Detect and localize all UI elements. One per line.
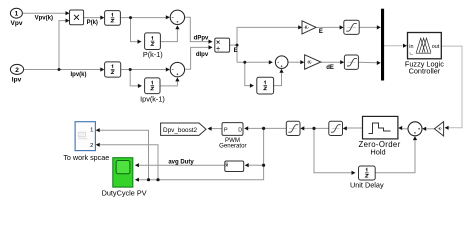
svg-text:DutyCycle PV: DutyCycle PV [102,188,147,197]
svg-text:E: E [319,29,323,35]
svg-text:dPpv: dPpv [194,35,209,41]
svg-text:Vpv: Vpv [11,20,23,27]
svg-text:dIpv: dIpv [196,52,209,58]
svg-text:1: 1 [90,128,93,134]
svg-text:P(k): P(k) [87,20,98,26]
svg-text:P: P [224,127,228,133]
svg-text:out: out [432,44,440,50]
svg-text:To work spcae: To work spcae [63,153,109,162]
svg-text:Controller: Controller [409,67,441,76]
svg-text:Ipv(k): Ipv(k) [70,72,86,78]
svg-text:Unit Delay: Unit Delay [350,180,384,189]
svg-text:Hold: Hold [370,148,385,157]
svg-text:Ipv: Ipv [12,77,22,84]
svg-text:dE: dE [326,65,334,71]
svg-text:P(k-1): P(k-1) [143,50,163,59]
svg-text:Generator: Generator [219,143,246,150]
svg-text:D: D [238,127,242,133]
svg-text:avg Duty: avg Duty [168,159,194,165]
svg-text:2: 2 [90,143,93,149]
svg-text:1: 1 [15,11,19,18]
svg-text:Dpv_boost2: Dpv_boost2 [163,127,198,134]
svg-text:Ipv(k-1): Ipv(k-1) [140,94,165,103]
svg-text:E: E [234,48,238,54]
svg-text:2: 2 [15,67,19,74]
svg-text:Vpv(k): Vpv(k) [35,15,53,21]
svg-text:in: in [409,44,413,50]
